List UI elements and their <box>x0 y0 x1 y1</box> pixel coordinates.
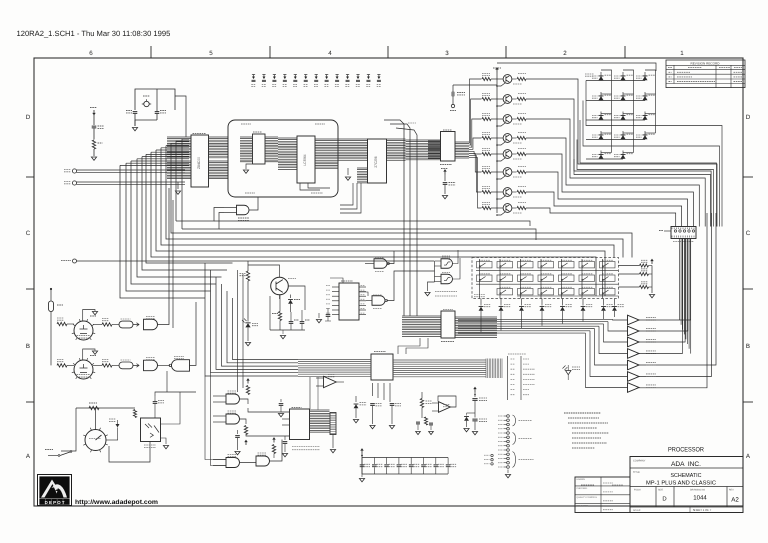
buffer gate U18A <box>144 319 158 330</box>
toggle switch S21 <box>60 452 70 456</box>
buffer U12-4 <box>628 349 640 359</box>
inverter gate U9A <box>374 259 387 269</box>
svg-text:QUALITY CONTROL: QUALITY CONTROL <box>577 496 598 499</box>
capacitor C43 <box>326 315 331 317</box>
bypass capacitor C76 <box>435 458 437 465</box>
capacitor C31 <box>133 112 138 114</box>
gate interconnect wires <box>240 399 249 404</box>
bypass capacitor C74 <box>410 458 412 465</box>
switch S8 <box>477 275 493 281</box>
gate U16D <box>256 456 270 466</box>
bypass row top rail <box>362 457 448 459</box>
buffer gate U18B <box>144 360 158 371</box>
LED D1 <box>600 72 602 81</box>
switch S21 <box>600 289 616 295</box>
connector P1 remote <box>671 227 696 239</box>
diode D40 <box>355 396 357 402</box>
switch S11 <box>538 275 554 281</box>
svg-text:RELEASED: RELEASED <box>577 505 589 508</box>
resistor R11 collector <box>512 78 517 80</box>
matrix column companion wire 1 <box>601 70 612 153</box>
switch S19 <box>559 289 575 295</box>
buffer U12-3 <box>628 337 640 347</box>
MIDI jack J5 <box>72 181 76 185</box>
resistor R72 <box>57 364 67 367</box>
title block company row <box>630 467 743 469</box>
wire rotary connections <box>95 408 97 430</box>
resistor R2 base <box>482 97 491 100</box>
svg-text:COMPANY: COMPANY <box>633 460 646 463</box>
ground below opto <box>161 438 167 444</box>
svg-text:1: 1 <box>680 50 684 57</box>
svg-text:6: 6 <box>89 50 93 57</box>
wire P1 bundle corners to buffer outputs <box>688 320 690 349</box>
capacitor C62 <box>237 430 239 434</box>
ground left of U11 <box>318 313 320 318</box>
switch matrix row wires <box>476 270 618 272</box>
switch S6 <box>579 262 595 268</box>
pullup resistor bank <box>619 265 640 267</box>
buffer U12-6 <box>628 372 640 382</box>
wire buffer 2 input from band <box>608 322 628 331</box>
pin hatch U6 right <box>316 139 339 169</box>
ground bypass row <box>361 474 363 477</box>
wire Q3 emitter to rail <box>497 123 506 126</box>
wire U13 outputs down <box>372 383 374 396</box>
bypass row bottom rail <box>362 473 448 475</box>
transistor Q4 <box>503 134 512 143</box>
rotary switch S20 <box>85 430 106 451</box>
bypass capacitor C72 <box>386 458 388 465</box>
hole group braces <box>513 415 516 426</box>
svg-text:3: 3 <box>445 50 449 57</box>
LED D10 <box>600 131 602 140</box>
diode D30 <box>290 295 292 299</box>
capacitor C32 <box>155 112 160 114</box>
svg-text:1044: 1044 <box>693 495 707 502</box>
wire buffer 5 input from band <box>595 329 628 366</box>
capacitor C18 with pad <box>452 92 454 97</box>
switch S13 <box>579 275 595 281</box>
resistor R5 base <box>482 152 491 155</box>
pin hatch U6 left <box>278 138 297 169</box>
capacitor C61 <box>284 436 286 440</box>
svg-text:SHEET 1 OF 7: SHEET 1 OF 7 <box>693 508 712 512</box>
wire opto up to bus <box>155 392 196 396</box>
switch S5 <box>559 262 575 268</box>
switch S16 <box>497 289 513 295</box>
ground below U7 <box>347 168 349 175</box>
transistor Q2 <box>503 95 512 104</box>
resistor R3 base <box>482 117 491 120</box>
transistor Q7 <box>503 188 512 197</box>
svg-text:C: C <box>746 230 751 237</box>
wire ribbon J2 to U13 <box>398 338 420 354</box>
schmitt gate U20A <box>441 259 453 269</box>
bypass capacitor C70 <box>361 458 363 465</box>
svg-text:B: B <box>26 343 30 350</box>
wire Q1 emitter to rail <box>497 83 506 86</box>
RAM U6 <box>297 136 315 183</box>
wire routing band to buffers <box>458 318 613 320</box>
wire gates to U17 <box>248 408 290 412</box>
transistor Q3 <box>503 115 512 124</box>
tube V1 12AX7 <box>74 321 93 340</box>
timer U11 <box>339 283 359 320</box>
wire Q4 emitter to rail <box>497 142 506 145</box>
fuse F1 <box>50 288 52 290</box>
resistor R60 pullup <box>246 386 249 395</box>
crystal Y1 oscillator loop <box>135 89 175 110</box>
bypass capacitor C71 <box>373 458 375 465</box>
wire pins CPU-left fan stubs <box>120 164 189 166</box>
switch S1 <box>477 262 493 268</box>
pin hatch U5 left <box>240 137 253 162</box>
LED D60 indicator <box>563 366 568 371</box>
MIDI interface U17 <box>290 409 310 440</box>
switch S9 <box>497 275 513 281</box>
LED D6 <box>644 92 646 101</box>
title block outer <box>630 457 743 513</box>
resistor R13 collector <box>512 118 517 120</box>
inverter gate U9B <box>372 296 385 306</box>
gate U18C mirrored <box>172 360 190 372</box>
wire cap to rail <box>453 84 497 86</box>
svg-text:LC3564: LC3564 <box>303 154 307 165</box>
svg-text:SCHEMATIC: SCHEMATIC <box>671 473 702 479</box>
microprocessor U1 <box>191 135 209 187</box>
wire rotary to opto <box>106 439 118 441</box>
matrix left return verticals <box>586 81 722 227</box>
capacitor C41 <box>300 322 305 324</box>
V2 plate chain <box>102 364 112 367</box>
front panel switch matrix box <box>472 258 619 299</box>
pin hatch U10 left <box>428 141 441 159</box>
mounting hole pads <box>507 415 510 418</box>
wire crystal to CPU <box>175 96 186 137</box>
gate wires <box>387 251 395 264</box>
transistor Q8 <box>503 204 512 213</box>
ground below LED <box>245 343 250 346</box>
svg-text:DRAWING NO: DRAWING NO <box>690 489 705 492</box>
pin hatch U10 right <box>455 142 469 158</box>
wire staircase Z-routing to connector P1 <box>526 79 717 227</box>
LED D5 <box>622 92 624 101</box>
switch S12 <box>559 275 575 281</box>
transistor Q1 <box>503 75 512 84</box>
wire Q7 emitter to rail <box>497 196 506 199</box>
wire stubs U7 down-left <box>340 183 353 205</box>
resistor R18 collector <box>512 207 517 209</box>
gate U16A <box>226 394 240 404</box>
ribbon cable right segment <box>455 317 497 337</box>
wire bundle below P1 <box>679 239 681 321</box>
resistor R8 base <box>482 206 491 209</box>
power VCC at U10 <box>444 171 446 175</box>
power entry +15V chain <box>474 389 476 393</box>
resistor R50 <box>420 399 423 408</box>
wire bus CPU left vertical bundle <box>120 165 205 298</box>
transistor Q6 <box>503 168 512 177</box>
svg-text:120RA2_1.SCH1 - Thu Mar 30 11:: 120RA2_1.SCH1 - Thu Mar 30 11:08:30 1995 <box>17 29 171 38</box>
LED D7 <box>600 112 602 121</box>
title block title rows <box>630 486 743 488</box>
wire V2 gate output down <box>166 371 168 392</box>
switch S3 <box>518 262 534 268</box>
V1 plate chain <box>102 323 112 326</box>
wire Q5 emitter to rail <box>497 158 506 161</box>
ribbon cable left segment <box>402 316 441 336</box>
wire CPU pin fan outer lines <box>176 141 189 221</box>
resistor R16 collector <box>512 171 517 173</box>
LED D12 <box>644 131 646 140</box>
border zone ticks sides <box>26 176 34 178</box>
optocoupler U19 <box>141 418 161 442</box>
buffer U12-1 <box>628 315 640 325</box>
approval table <box>575 477 630 513</box>
gate array U5 <box>253 134 266 164</box>
pin hatch U7 lower-left <box>357 168 368 183</box>
sheet border <box>34 58 743 506</box>
buffer U12-7 <box>628 383 640 393</box>
switch S20 <box>579 289 595 295</box>
switch S7 <box>600 262 616 268</box>
I2C note text <box>435 291 457 293</box>
resistor R1 base <box>482 77 491 80</box>
power rail vertical <box>496 69 498 73</box>
ground mounting holes <box>507 470 509 474</box>
svg-text:C: C <box>26 230 31 237</box>
svg-text:SIZE: SIZE <box>658 489 664 492</box>
wire stub below J3 <box>332 435 334 449</box>
LED D31 <box>247 319 249 322</box>
wire Q9 collector <box>279 295 281 299</box>
wire fan latch to transistor bases <box>469 79 482 143</box>
pin hatch U17 right ribbon <box>310 410 330 432</box>
diode D21 <box>500 299 502 306</box>
wire bundle down-left to U13 <box>205 263 298 376</box>
ground below C19 <box>442 196 447 199</box>
interface IC U13 <box>371 354 393 380</box>
capacitor C52 <box>416 422 420 424</box>
resistor R75 <box>133 410 136 418</box>
svg-text:Z84C00: Z84C00 <box>197 157 201 169</box>
wire bus module to ROM <box>338 139 368 160</box>
wire bus ROM to latch U10 <box>406 140 441 160</box>
ribbon connector J2 <box>441 311 455 338</box>
capacitor C33 <box>92 126 97 128</box>
pin hatch U5 right <box>265 137 278 162</box>
wire U13 left vertical <box>309 377 311 409</box>
svg-text:http://www.adadepot.com: http://www.adadepot.com <box>75 499 158 506</box>
LED D13 <box>600 151 602 160</box>
logic gate U8 NAND <box>237 205 250 215</box>
diode D27 <box>614 299 616 306</box>
wire Q6 emitter to rail <box>497 176 506 179</box>
pin hatch U13 right ribbon <box>393 360 486 377</box>
svg-text:ADA INC.: ADA INC. <box>671 462 701 468</box>
diode D20 <box>480 299 482 306</box>
capacitor C50 <box>370 404 375 406</box>
wire buffer 4 input from band <box>599 326 628 353</box>
wire loop top <box>76 407 135 409</box>
resistor R70 <box>57 322 67 325</box>
svg-text:5: 5 <box>209 50 213 57</box>
svg-text:D: D <box>26 114 31 121</box>
V1 grid ground <box>83 310 95 322</box>
svg-text:TITLE: TITLE <box>633 471 640 474</box>
key destination table <box>507 356 509 400</box>
bypass capacitor C73 <box>398 458 400 465</box>
svg-text:SCALE: SCALE <box>633 509 641 512</box>
resistor R62 pullup <box>272 445 275 454</box>
svg-text:4: 4 <box>328 50 332 57</box>
svg-text:2: 2 <box>563 50 567 57</box>
matrix column companion wire 3 <box>645 70 656 133</box>
resistor R6 base <box>482 170 491 173</box>
audio input jack J1 <box>73 259 77 263</box>
gate U16C <box>226 458 240 468</box>
LED D9 <box>644 112 646 121</box>
ground below R33 <box>91 157 96 160</box>
diode D24 <box>562 299 564 306</box>
ADA Depot logo <box>38 475 72 506</box>
svg-text:MP-1 PLUS AND CLASSIC: MP-1 PLUS AND CLASSIC <box>646 481 717 487</box>
matrix supply wire <box>497 63 656 71</box>
wire Q8 emitter to rail <box>497 212 506 215</box>
left rail wire <box>50 324 52 365</box>
diode D70 <box>117 420 119 424</box>
opamp U15 <box>439 402 451 413</box>
capacitor C19 <box>443 183 448 185</box>
resistor R33 <box>92 140 95 149</box>
resistor R51 <box>424 417 427 425</box>
ground below U5 <box>246 164 252 169</box>
LED D4 <box>600 92 602 101</box>
pin hatch U1 right <box>209 137 229 158</box>
capacitor C60 <box>280 399 282 402</box>
matrix column companion wire 2 <box>623 70 634 153</box>
V2 grid ground <box>83 349 95 360</box>
schmitt gate U20B <box>441 274 453 284</box>
transistor Q9 power <box>271 277 289 295</box>
module boundary rounded box <box>228 120 338 197</box>
opamp U14 <box>324 376 337 387</box>
bypass capacitor C75 <box>423 458 425 465</box>
ribbon connector J3 <box>330 413 336 435</box>
resistor R61 pullup <box>244 426 247 435</box>
tube V2 12AX7 <box>74 360 93 379</box>
wire U11 top <box>330 278 343 283</box>
latch U10 <box>441 132 456 162</box>
wire buffer 6 input from band <box>590 331 628 377</box>
wire verticals to bottom gates <box>237 270 239 392</box>
capacitor C70 <box>153 402 158 404</box>
MIDI text note <box>292 446 320 448</box>
svg-text:PROCESSOR: PROCESSOR <box>668 447 704 454</box>
MIDI jack J4 <box>72 169 76 173</box>
border zone ticks top <box>150 46 152 58</box>
LED D8 <box>622 112 624 121</box>
switch S14 <box>600 275 616 281</box>
capacitor C40 <box>289 322 294 324</box>
svg-text:REV: REV <box>729 489 734 492</box>
switch S10 <box>518 275 534 281</box>
svg-text:27C256: 27C256 <box>374 156 378 167</box>
diode D26 <box>603 299 605 306</box>
capacitor C53 <box>429 423 433 425</box>
zener D50 <box>467 412 476 414</box>
resistor R41 <box>278 312 281 321</box>
svg-text:DRAWN: DRAWN <box>577 478 586 481</box>
bypass capacitor row C1-C13 <box>252 74 255 76</box>
wire buffer 1 input from band <box>613 318 628 321</box>
resistor R17 collector <box>512 191 517 193</box>
switch S18 <box>538 289 554 295</box>
LED D3 <box>644 72 646 81</box>
bypass row supply <box>361 450 363 454</box>
diode D23 <box>541 299 543 306</box>
wire cap common to ground <box>270 329 305 331</box>
ground below U1 <box>177 182 179 189</box>
wire buffer 3 input from band <box>604 324 628 342</box>
notes text block <box>564 412 601 414</box>
right side long verticals from nest <box>639 213 716 365</box>
gate U16B <box>226 414 240 424</box>
title block size row <box>630 506 743 508</box>
wire V1 out up to bus <box>158 188 170 325</box>
svg-text:REVISION RECORD: REVISION RECORD <box>690 62 720 66</box>
wire buffer 7 input from band <box>586 333 628 387</box>
svg-text:D: D <box>746 114 751 121</box>
revision record table <box>666 60 745 88</box>
bypass capacitor C77 <box>447 458 449 465</box>
module right boundary wires <box>384 120 404 316</box>
LED D11 <box>622 131 624 140</box>
capacitor C51 <box>390 404 395 406</box>
ground power chain <box>472 432 477 435</box>
resistor R40 <box>246 271 249 281</box>
wire stubs below U6 <box>300 183 320 190</box>
power feed +5 arrow <box>93 110 95 114</box>
LED D2 <box>622 72 624 81</box>
resistor R7 base <box>482 190 491 193</box>
resistor R4 base <box>482 136 491 139</box>
wire audio input line <box>77 260 434 262</box>
switch S4 <box>538 262 554 268</box>
schmitt wires <box>435 260 442 262</box>
wire buffer outputs to P1 bundle <box>639 239 691 321</box>
wire Q2 emitter to rail <box>497 103 506 106</box>
svg-text:B: B <box>746 343 750 350</box>
ground below crystal <box>134 120 136 126</box>
diode D22 <box>521 299 523 306</box>
EPROM U7 <box>368 139 387 183</box>
resistor R15 collector <box>512 153 517 155</box>
switch matrix label <box>474 294 485 296</box>
resistor R12 collector <box>512 98 517 100</box>
LED D14 <box>622 151 624 160</box>
power pads <box>491 454 493 456</box>
switch S2 <box>497 262 513 268</box>
svg-text:A2: A2 <box>731 497 739 504</box>
svg-text:FSCM: FSCM <box>634 489 641 492</box>
resistor R14 collector <box>512 137 517 139</box>
switch S17 <box>518 289 534 295</box>
pin hatch U1 left <box>167 137 191 158</box>
diode D25 <box>582 299 584 306</box>
svg-text:CHECKED: CHECKED <box>577 487 588 490</box>
